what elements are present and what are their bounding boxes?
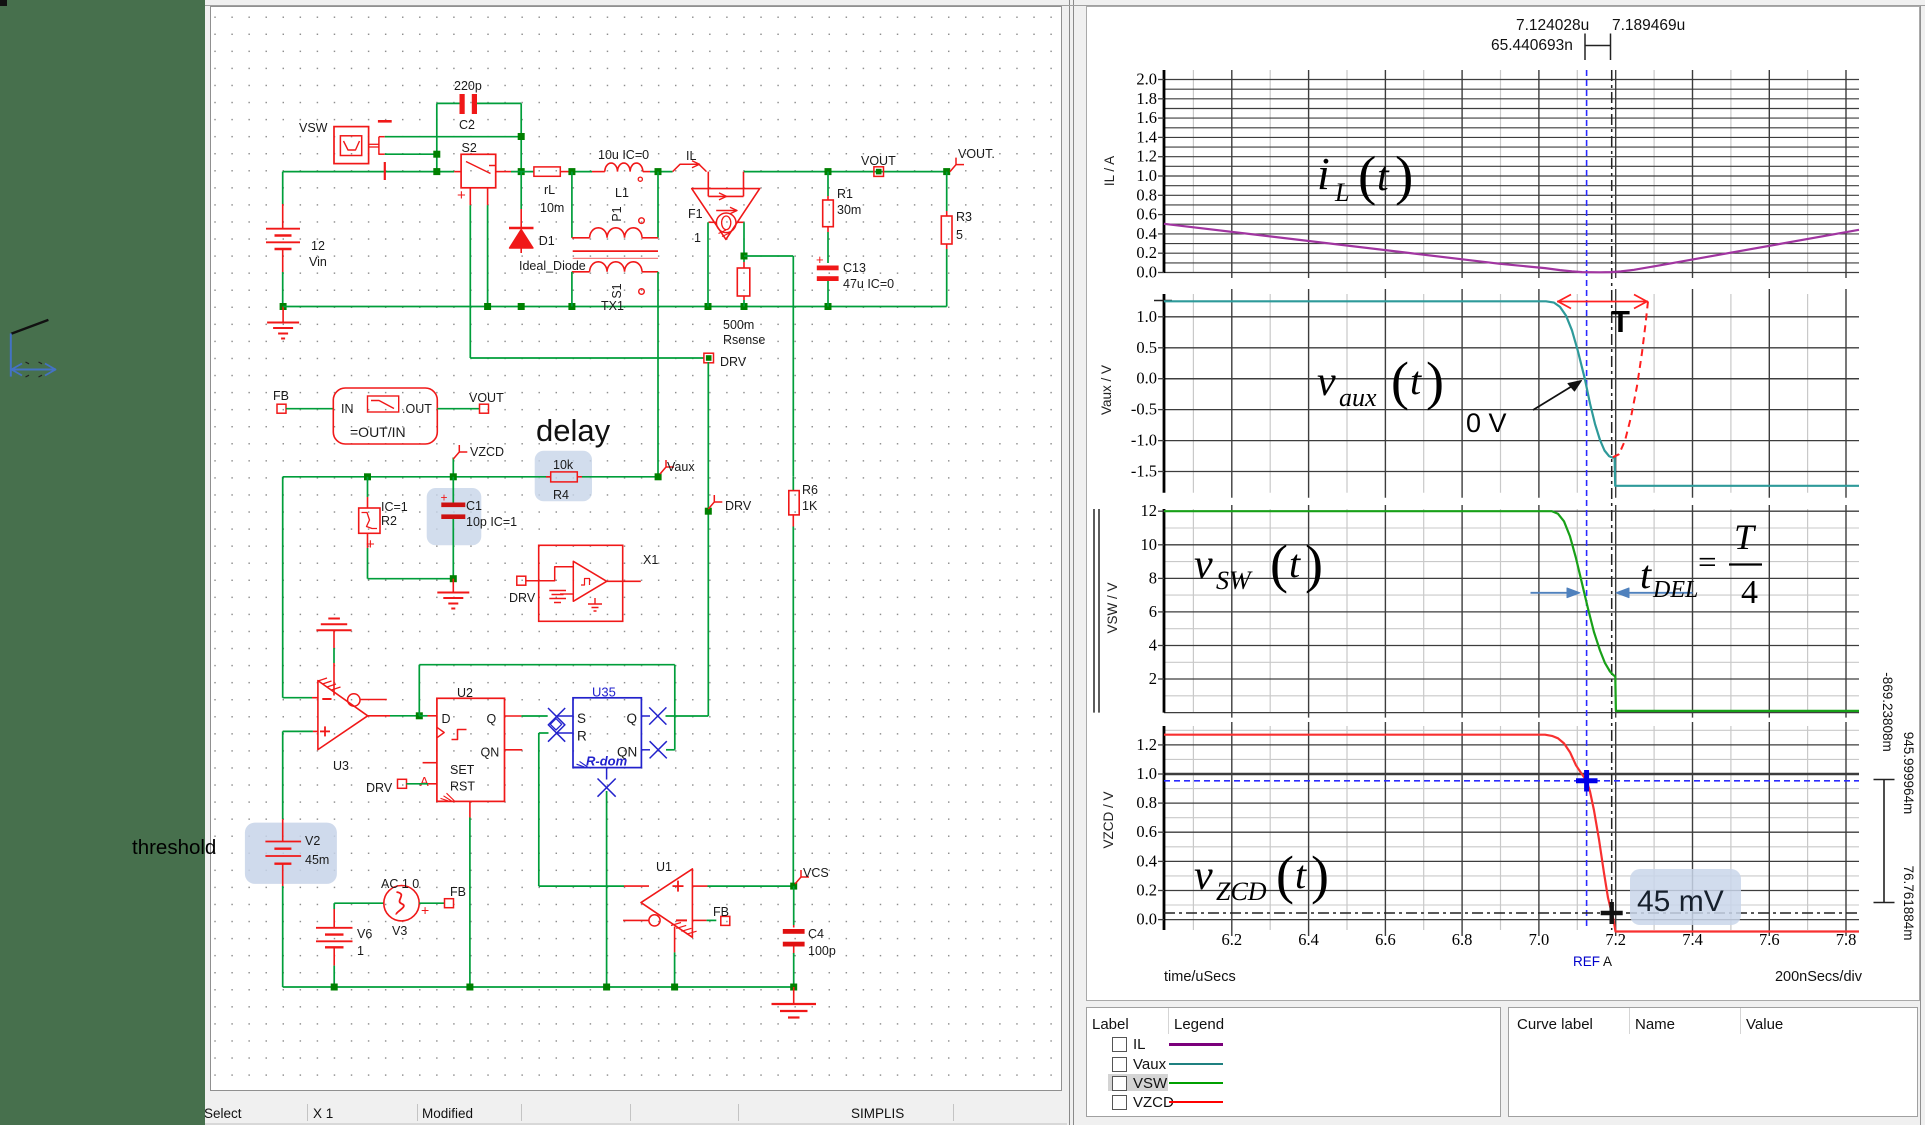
svg-text:U35: U35 [592, 685, 616, 700]
svg-text:C13: C13 [843, 261, 866, 275]
svg-text:R1: R1 [837, 187, 853, 201]
svg-text:Vaux: Vaux [667, 460, 695, 474]
svg-text:): ) [1305, 534, 1323, 594]
svg-text:DEL: DEL [1652, 577, 1698, 603]
battery V6 1 [333, 903, 335, 909]
svg-text:=: = [1698, 545, 1717, 581]
svg-text:0.6: 0.6 [1136, 822, 1157, 841]
battery Vin 12 [282, 172, 284, 204]
svg-text:10m: 10m [540, 201, 564, 215]
svg-text:v: v [1317, 359, 1336, 405]
wire block to VOUT port [437, 408, 479, 410]
wire main input rail y=171.6 [283, 171, 455, 173]
svg-text:7.0: 7.0 [1529, 930, 1550, 949]
svg-text:0.2: 0.2 [1136, 243, 1157, 262]
svg-text:A: A [1603, 954, 1612, 969]
node R2 top [364, 473, 371, 480]
svg-text:+: + [441, 491, 448, 505]
svg-text:0.0: 0.0 [1136, 263, 1157, 282]
resistor rL 10m [534, 167, 560, 176]
svg-text:A: A [420, 774, 429, 789]
svg-text:): ) [1311, 845, 1329, 905]
svg-text:12: 12 [1141, 501, 1158, 520]
svg-text:RST: RST [450, 780, 475, 794]
svg-text:Rsense: Rsense [723, 333, 765, 347]
svg-text:1.0: 1.0 [1136, 307, 1157, 326]
svg-text:): ) [1426, 351, 1444, 411]
grid plot3 [1164, 527, 1859, 529]
subcircuit X1 [539, 545, 623, 621]
svg-text:IC=1: IC=1 [381, 500, 408, 514]
transformer TX1 primary P1 [571, 172, 573, 238]
resistor R4 10k [551, 472, 578, 482]
battery V2 45m [282, 819, 284, 841]
svg-text:U3: U3 [333, 759, 349, 773]
svg-text:7.8: 7.8 [1836, 930, 1857, 949]
svg-text:(: ( [1358, 145, 1376, 206]
formula v_ZCD(t) [1194, 845, 1329, 906]
wire FB to transfer block [286, 408, 333, 410]
svg-text:T: T [1611, 304, 1630, 339]
svg-text:t: t [1640, 552, 1652, 597]
resistor Rsense 500m [741, 253, 748, 260]
U2 bottom pin [469, 801, 471, 817]
wire Q to DRV rail [666, 715, 709, 717]
port VOUT mid-rail [874, 167, 884, 177]
svg-text:DRV: DRV [720, 355, 747, 369]
svg-text:7.189469u: 7.189469u [1612, 17, 1685, 34]
X mark S input [548, 708, 565, 725]
formula v_aux(t) [1317, 351, 1444, 412]
VSW minus mark [378, 120, 392, 123]
svg-text:200nSecs/div: 200nSecs/div [1775, 969, 1863, 985]
svg-text:V2: V2 [305, 834, 320, 848]
svg-text:rL: rL [544, 183, 555, 197]
node VCS + pin [790, 883, 797, 890]
svg-text:6: 6 [1149, 602, 1157, 621]
svg-text:): ) [1395, 145, 1413, 206]
comparator U3 [318, 678, 327, 681]
svg-text:V3: V3 [392, 924, 407, 938]
svg-text:.OUT: .OUT [402, 402, 432, 416]
svg-text:=OUT/IN: =OUT/IN [350, 424, 406, 440]
svg-text:0.6: 0.6 [1136, 205, 1157, 224]
diamond no-connect [550, 719, 561, 730]
svg-text:QN: QN [481, 746, 500, 760]
cursor REF blue dashed [1586, 70, 1588, 930]
svg-text:S1: S1 [610, 283, 624, 298]
svg-text:945.999964m: 945.999964m [1901, 732, 1916, 815]
svg-text:VSW / V: VSW / V [1105, 582, 1120, 633]
svg-text:REF: REF [1573, 954, 1600, 969]
svg-text:1.6: 1.6 [1136, 108, 1157, 127]
svg-text:Q: Q [487, 712, 497, 726]
svg-text:t: t [1377, 154, 1390, 200]
wire DRV rail top [470, 357, 704, 359]
svg-text:threshold: threshold [132, 836, 216, 859]
transformer TX1 secondary S1 [572, 271, 590, 273]
port DRV at RST [398, 779, 407, 788]
node VOUT corner + output pin [943, 168, 950, 175]
current probe IL [673, 164, 707, 171]
hline blue dashed [1164, 780, 1859, 782]
svg-text:delay: delay [536, 413, 611, 448]
svg-text:0.2: 0.2 [1136, 881, 1157, 900]
svg-text:+: + [421, 902, 429, 918]
resistor R3 5 [946, 172, 948, 211]
wire C2 right leg [520, 103, 522, 171]
S2 bottom pins [469, 188, 471, 205]
wire R input [539, 732, 549, 734]
svg-text:R2: R2 [381, 514, 397, 528]
resistor R2 (nonlinear) [367, 477, 369, 497]
U35 bottom pin with X [606, 768, 608, 780]
formula t_DEL = T/4 [1640, 517, 1758, 611]
svg-text:7.4: 7.4 [1682, 930, 1703, 949]
curve VZCD red [1164, 735, 1859, 932]
svg-text:0.4: 0.4 [1136, 224, 1157, 243]
svg-text:DRV: DRV [509, 591, 536, 605]
svg-text:10u IC=0: 10u IC=0 [598, 148, 649, 162]
svg-text:Vaux / V: Vaux / V [1099, 365, 1114, 415]
highlight V2 [245, 823, 337, 884]
VSW plus tick [384, 162, 386, 180]
svg-text:0.8: 0.8 [1136, 185, 1157, 204]
grid plot2 [1164, 316, 1859, 318]
svg-text:AC 1 0: AC 1 0 [381, 877, 419, 891]
svg-text:-0.5: -0.5 [1131, 400, 1157, 419]
svg-text:S2: S2 [462, 141, 477, 155]
ground bus wire y=306.5 [283, 306, 947, 308]
X mark R input [548, 725, 565, 742]
svg-text:time/uSecs: time/uSecs [1164, 969, 1236, 985]
comparator U1 [641, 869, 692, 937]
wire VSW bottom to C2-left node [385, 153, 437, 155]
resistor R1 30m [827, 172, 829, 196]
svg-text:DRV: DRV [366, 781, 393, 795]
highlight R4 [535, 451, 592, 502]
svg-text:1: 1 [694, 231, 701, 245]
svg-text:6.2: 6.2 [1221, 930, 1242, 949]
svg-text:7.124028u: 7.124028u [1516, 17, 1589, 34]
voltage source VSW [334, 127, 369, 164]
svg-text:10k: 10k [553, 458, 574, 472]
svg-text:aux: aux [1339, 383, 1377, 412]
capacitor C2 [437, 102, 460, 104]
svg-text:6.4: 6.4 [1298, 930, 1319, 949]
svg-text:0 V: 0 V [1466, 408, 1507, 438]
svg-text:Vin: Vin [309, 255, 327, 269]
svg-text:t: t [1410, 358, 1422, 403]
svg-text:1K: 1K [802, 499, 818, 513]
F1 arrow [716, 210, 737, 212]
svg-text:FB: FB [450, 885, 466, 899]
U2 QN stub [505, 749, 523, 751]
wire Rsense node to VCS rail [744, 255, 793, 257]
svg-text:D1: D1 [539, 234, 555, 248]
resistor R6 1K [792, 477, 794, 491]
wire DRV vertical rail [707, 362, 709, 716]
svg-text:i: i [1317, 148, 1330, 199]
svg-text:47u IC=0: 47u IC=0 [843, 277, 894, 291]
U1 minus input stub [623, 919, 649, 921]
node VZCD/C1 [450, 473, 457, 480]
svg-text:TX1: TX1 [601, 299, 624, 313]
svg-text:VSW: VSW [299, 121, 328, 135]
svg-text:1.0: 1.0 [1136, 166, 1157, 185]
svg-text:-1.0: -1.0 [1131, 431, 1157, 450]
U2 SET stub [423, 762, 437, 764]
svg-text:1.0: 1.0 [1136, 764, 1157, 783]
wire C2 left leg [436, 103, 438, 171]
port DRV top [704, 353, 714, 363]
svg-text:X1: X1 [643, 553, 658, 567]
cross black [1601, 911, 1623, 915]
svg-text:0.5: 0.5 [1136, 338, 1157, 357]
svg-text:-1.5: -1.5 [1131, 462, 1157, 481]
svg-text:2: 2 [1149, 669, 1157, 688]
cross blue [1576, 778, 1598, 783]
svg-text:4: 4 [1149, 636, 1157, 655]
svg-text:0.0: 0.0 [1136, 910, 1157, 929]
wire V3 to FB port [419, 902, 444, 904]
svg-text:VOUT: VOUT [861, 154, 896, 168]
wire R2 bottom to C1 bottom [368, 578, 454, 580]
svg-text:IL: IL [686, 149, 696, 163]
svg-text:P1: P1 [610, 206, 624, 221]
ground below C1 [450, 575, 457, 582]
svg-text:Ideal_Diode: Ideal_Diode [519, 259, 586, 273]
svg-text:VZCD / V: VZCD / V [1101, 791, 1116, 848]
svg-text:R6: R6 [802, 483, 818, 497]
latch U35 R-dom [573, 698, 641, 768]
svg-text:45 mV: 45 mV [1637, 885, 1724, 918]
formula i_L(t) [1317, 145, 1413, 207]
svg-text:30m: 30m [837, 203, 861, 217]
feedback QN to D [416, 712, 423, 719]
wire left rail down to U3 [282, 477, 284, 698]
block =OUT/IN [333, 388, 437, 444]
svg-text:0.0: 0.0 [1136, 369, 1157, 388]
svg-text:VZCD: VZCD [470, 445, 504, 459]
svg-text:VOUT: VOUT [469, 391, 504, 405]
ground below Vin [280, 303, 287, 310]
transformer core [573, 250, 658, 252]
wire D input [419, 715, 427, 717]
svg-text:R4: R4 [553, 488, 569, 502]
svg-text:Q: Q [627, 711, 638, 726]
svg-text:VCS: VCS [803, 866, 829, 880]
U1 bottom pin [674, 927, 676, 953]
inverted ground above U3 [328, 618, 340, 620]
svg-text:1.8: 1.8 [1136, 89, 1157, 108]
svg-text:(: ( [1276, 845, 1294, 905]
inductor L1 10u [572, 171, 592, 173]
grid plot1 [1164, 79, 1859, 81]
wire VSW top to C2-right node [385, 136, 522, 138]
wire U3 output to D node [368, 715, 390, 717]
svg-text:0.4: 0.4 [1136, 851, 1157, 870]
svg-text:SET: SET [450, 763, 475, 777]
svg-text:(: ( [1391, 351, 1409, 411]
curve Vaux resonance red dashed [1613, 301, 1648, 457]
U2 Q output [505, 715, 522, 717]
X mark QN output [641, 749, 650, 751]
svg-text:6.8: 6.8 [1452, 930, 1473, 949]
svg-text:VOUT.: VOUT. [958, 147, 995, 161]
svg-text:45m: 45m [305, 853, 329, 867]
svg-text:1.2: 1.2 [1136, 735, 1157, 754]
svg-text:SW: SW [1216, 566, 1253, 595]
curve IL purple [1164, 224, 1859, 272]
blue dimension arrows tDEL [1531, 592, 1571, 594]
svg-text:R3: R3 [956, 210, 972, 224]
highlight C1 [427, 488, 482, 545]
cursor A black dash-dot [1611, 70, 1613, 930]
wire VZCD rail y=476.8 [283, 476, 551, 478]
svg-text:1: 1 [357, 944, 364, 958]
svg-text:IL / A: IL / A [1102, 156, 1117, 186]
formula v_SW(t) [1194, 534, 1323, 595]
svg-text:7.2: 7.2 [1605, 930, 1626, 949]
grid plot4 [1164, 729, 1859, 731]
svg-text:FB: FB [273, 389, 289, 403]
port FB left [277, 404, 286, 413]
net pin VZCD [452, 458, 454, 477]
svg-text:8: 8 [1149, 568, 1157, 587]
svg-text:+: + [816, 252, 824, 267]
controlled source F1 [692, 189, 760, 240]
capacitor C4 100p [793, 886, 795, 925]
node R1 top [825, 168, 832, 175]
svg-text:L1: L1 [615, 186, 629, 200]
svg-text:t: t [1289, 541, 1301, 586]
svg-text:5: 5 [956, 228, 963, 242]
svg-text:+: + [457, 187, 466, 204]
svg-text:D: D [442, 712, 451, 726]
svg-text:V6: V6 [357, 927, 372, 941]
svg-text:S: S [577, 711, 586, 726]
svg-text:100p: 100p [808, 944, 836, 958]
svg-text:FB: FB [713, 905, 729, 919]
dimension bracket [1883, 780, 1885, 903]
svg-text:220p: 220p [454, 79, 482, 93]
svg-text:L: L [1334, 178, 1349, 207]
toolbar icons on desktop [0, 0, 7, 6]
svg-text:10p IC=1: 10p IC=1 [466, 515, 517, 529]
hline black dash-dot 45mV [1164, 912, 1859, 914]
wire top output rail to VOUT [744, 171, 947, 173]
svg-text:76.761884m: 76.761884m [1901, 865, 1916, 940]
curve Vaux teal [1164, 301, 1859, 486]
bottom ground bus [283, 986, 794, 988]
svg-text:6.6: 6.6 [1375, 930, 1396, 949]
ground below C4 [793, 987, 795, 1004]
svg-text:IN: IN [341, 402, 354, 416]
svg-text:1.4: 1.4 [1136, 127, 1157, 146]
svg-text:U2: U2 [457, 686, 473, 700]
svg-text:0.8: 0.8 [1136, 793, 1157, 812]
svg-text:T: T [1734, 517, 1757, 557]
node C2 legs [433, 151, 440, 158]
svg-text:R-dom: R-dom [586, 754, 628, 769]
svg-text:10: 10 [1141, 535, 1158, 554]
highlight 45 mV [1630, 869, 1741, 925]
curve VSW green [1164, 511, 1859, 711]
svg-text:1.2: 1.2 [1136, 147, 1157, 166]
svg-text:C2: C2 [459, 118, 475, 132]
svg-text:R: R [577, 729, 587, 744]
svg-text:7.6: 7.6 [1759, 930, 1780, 949]
svg-text:t: t [1295, 852, 1307, 897]
switch S2 [454, 171, 461, 173]
source V3 AC [334, 902, 384, 904]
node DRV mid + pin [705, 508, 712, 515]
svg-text:500m: 500m [723, 318, 754, 332]
svg-text:(: ( [1270, 534, 1288, 594]
svg-text:C1: C1 [466, 499, 482, 513]
flip-flop U2 [437, 698, 505, 801]
capacitor C1 10p [452, 477, 454, 503]
selected axis marks [1093, 509, 1095, 713]
svg-text:v: v [1194, 853, 1213, 899]
node Vaux corner [655, 473, 662, 480]
svg-text:DRV: DRV [725, 499, 752, 513]
svg-text:12: 12 [311, 239, 325, 253]
red arrow T (plot2) [1557, 301, 1648, 303]
svg-text:ZCD: ZCD [1216, 877, 1267, 906]
diode D1 Ideal_Diode [520, 172, 522, 209]
svg-text:2.0: 2.0 [1136, 70, 1157, 89]
svg-text:F1: F1 [688, 207, 703, 221]
svg-text:65.440693n: 65.440693n [1491, 37, 1573, 54]
wire U3 plus input [283, 730, 313, 732]
wire U3 minus input [283, 697, 312, 699]
svg-text:U1: U1 [656, 860, 672, 874]
wire U1 minus to FB port [692, 919, 706, 921]
svg-text:4: 4 [1741, 574, 1758, 611]
svg-text:C4: C4 [808, 927, 824, 941]
svg-text:-869.23808m: -869.23808m [1880, 672, 1895, 752]
svg-text:v: v [1194, 542, 1213, 588]
X mark Q output [641, 715, 650, 717]
wire U35.R rail to U1 plus and VCS [539, 885, 624, 887]
